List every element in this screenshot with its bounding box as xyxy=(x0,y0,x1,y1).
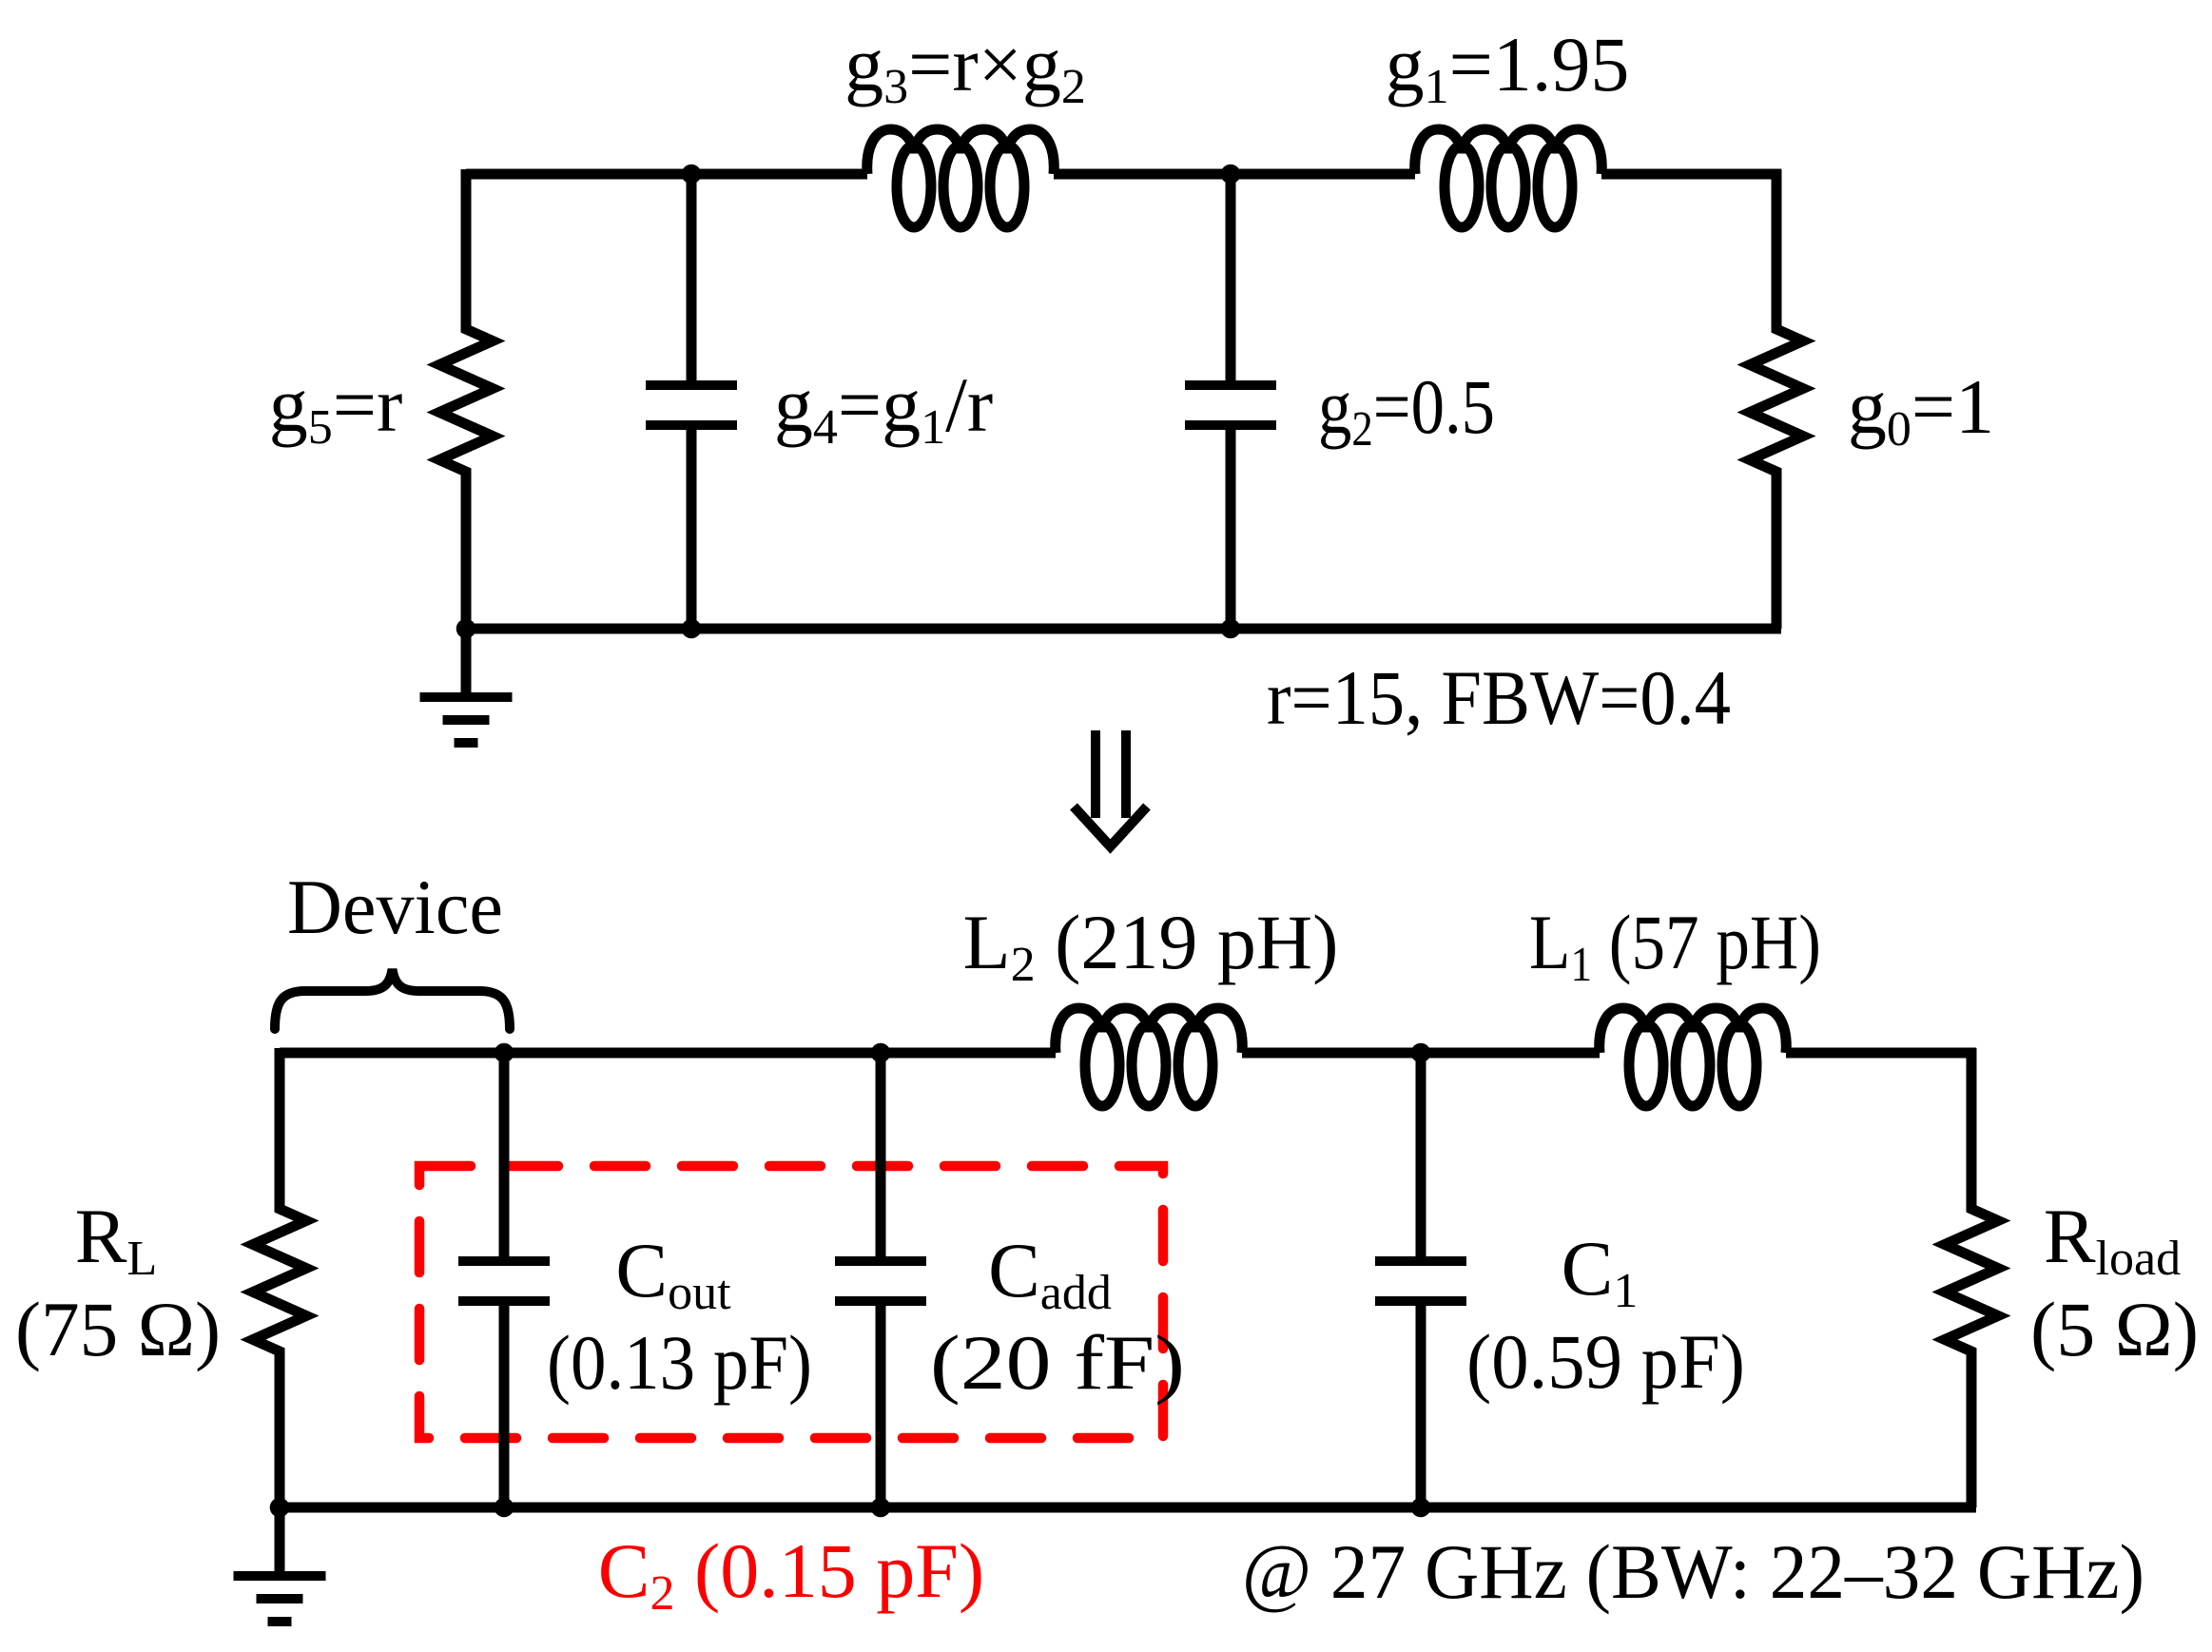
wire Cout branch lower xyxy=(499,1304,510,1507)
wire top-left segment (bottom circuit) xyxy=(280,1048,1056,1059)
svg-text:(0.13 pF): (0.13 pF) xyxy=(547,1319,812,1406)
svg-text:g3=r×g2: g3=r×g2 xyxy=(844,21,1086,114)
arrow (transforms to) xyxy=(1091,730,1100,818)
wire C1 branch upper xyxy=(1416,1053,1426,1258)
node junction bottom RL xyxy=(270,1498,290,1518)
wire g2 branch lower xyxy=(1226,428,1236,629)
svg-text:g1=1.95: g1=1.95 xyxy=(1386,21,1630,114)
wire Cout branch upper xyxy=(499,1053,510,1258)
node junction top g4 xyxy=(682,165,702,185)
node junction bottom g2 xyxy=(1221,619,1241,639)
wire g4 branch upper xyxy=(687,174,697,382)
wire top-left segment xyxy=(466,169,867,180)
svg-text:g4=g1/r: g4=g1/r xyxy=(774,361,993,455)
node junction top Cadd xyxy=(871,1043,891,1063)
wire top-middle segment (bottom circuit) xyxy=(1242,1048,1600,1059)
inductor L2 xyxy=(1056,1008,1243,1053)
ground (top circuit) xyxy=(461,629,472,697)
capacitor Cadd xyxy=(835,1256,926,1266)
ground (bottom circuit) xyxy=(275,1507,285,1576)
svg-text:@ 27 GHz (BW: 22–32 GHz): @ 27 GHz (BW: 22–32 GHz) xyxy=(1242,1528,2144,1615)
svg-text:g0=1: g0=1 xyxy=(1848,363,1994,457)
capacitor g2 xyxy=(1185,380,1276,390)
inductor g1 xyxy=(1415,129,1602,174)
svg-text:r=15, FBW=0.4: r=15, FBW=0.4 xyxy=(1267,654,1731,741)
resistor g0 xyxy=(1750,169,1803,629)
wire g2 branch upper xyxy=(1226,174,1236,382)
wire top-right segment (bottom circuit) xyxy=(1786,1048,1976,1059)
wire Cadd branch lower xyxy=(876,1304,886,1507)
node junction bottom Cout xyxy=(495,1498,514,1518)
node junction top g2 xyxy=(1221,165,1241,185)
red dashed box C2 xyxy=(419,1166,1163,1438)
wire g4 branch lower xyxy=(687,428,697,629)
wire top-middle segment xyxy=(1054,169,1415,180)
wire bottom bus (top circuit) xyxy=(460,624,1781,634)
brace Device xyxy=(275,969,510,1029)
node junction bottom left xyxy=(456,619,476,639)
node junction bottom g4 xyxy=(682,619,702,639)
node junction bottom Cadd xyxy=(871,1498,891,1518)
svg-text:(5 Ω): (5 Ω) xyxy=(2030,1286,2199,1372)
svg-text:(20 fF): (20 fF) xyxy=(930,1319,1185,1406)
resistor RL xyxy=(253,1048,306,1507)
wire bottom bus (bottom circuit) xyxy=(274,1503,1976,1513)
node junction bottom C1 xyxy=(1411,1498,1431,1518)
svg-text:Device: Device xyxy=(287,864,503,950)
svg-text:(75 Ω): (75 Ω) xyxy=(15,1286,221,1372)
inductor g3 xyxy=(867,129,1055,174)
wire top-right segment xyxy=(1601,169,1781,180)
svg-text:g2=0.5: g2=0.5 xyxy=(1318,363,1495,457)
svg-text:(0.59 pF): (0.59 pF) xyxy=(1466,1318,1745,1405)
wire Cadd branch upper xyxy=(876,1053,886,1258)
node junction top C1 xyxy=(1411,1043,1431,1063)
inductor L1 xyxy=(1600,1008,1787,1053)
capacitor Cout xyxy=(458,1256,550,1266)
wire C1 branch lower xyxy=(1416,1304,1426,1507)
capacitor C1 xyxy=(1375,1256,1466,1266)
capacitor g4 xyxy=(646,380,737,390)
resistor g5 xyxy=(439,169,493,629)
svg-text:g5=r: g5=r xyxy=(269,361,403,455)
resistor Rload xyxy=(1945,1048,1998,1507)
node junction top Cout xyxy=(495,1043,514,1063)
